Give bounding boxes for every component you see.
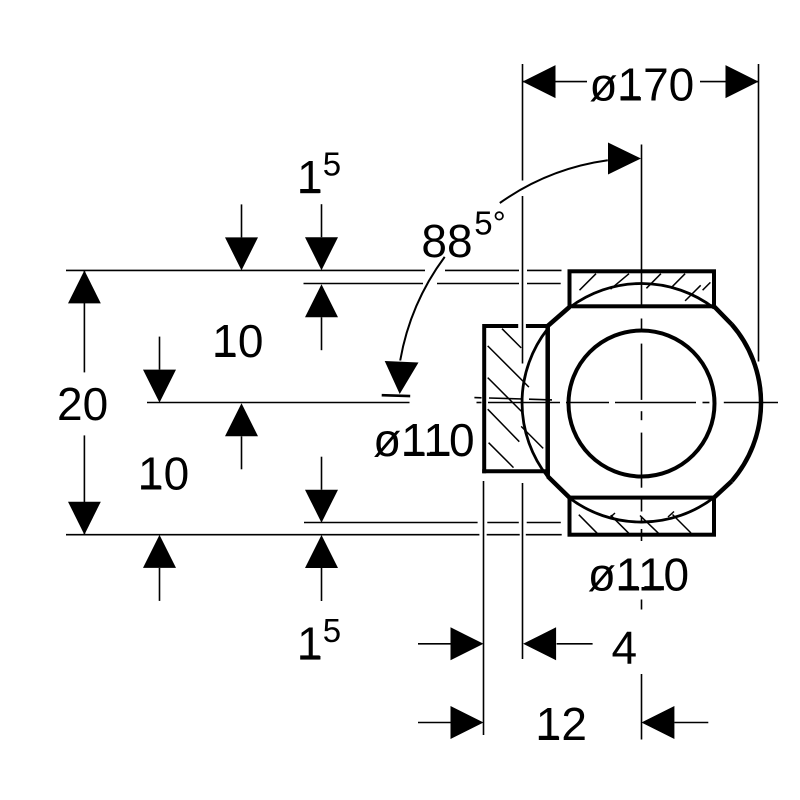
svg-text:ø170: ø170 — [589, 58, 694, 110]
svg-text:5°: 5° — [474, 205, 506, 242]
sphere silhouette arc in bottom socket — [570, 498, 715, 523]
arrowhead right of dim ø170 — [726, 65, 759, 98]
ball body chamfer top-right — [714, 306, 732, 324]
svg-text:10: 10 — [212, 315, 263, 367]
lower reference line L5 (broken by extension lines) — [66, 534, 479, 536]
hatching of top socket section — [580, 274, 597, 291]
arrowhead down of dim 20 — [68, 502, 101, 535]
ball body chamfer bottom-left — [548, 476, 570, 497]
arrowhead up of dim 20 — [68, 270, 101, 303]
leader arc upper segment of angle 88.5 — [500, 160, 608, 203]
upper sloped-pipe line L2 (broken by leader arc and extension line) — [304, 283, 424, 285]
dimension line right of dim 12 — [674, 722, 708, 724]
extension line at x=484 (socket face, for dims 4 and 12) — [483, 481, 485, 735]
inner bore circle — [569, 331, 715, 477]
arrowhead up of dim 10 upper (at L3) — [225, 403, 258, 436]
svg-text:4: 4 — [612, 621, 638, 673]
svg-text:ø110: ø110 — [373, 414, 474, 466]
vertical centreline of vertical pipe axis (dash-dot) — [641, 145, 643, 307]
sloped branch centreline (dash-dot, 1.5 degree fall) — [474, 397, 481, 399]
arrowhead down of dim 10 upper (at L1) — [225, 237, 258, 270]
sphere silhouette arc in top socket — [570, 284, 715, 309]
arrowhead left-pointing of dim 12 — [641, 706, 674, 739]
svg-text:5: 5 — [323, 145, 341, 182]
arrowhead up of dim 10 lower (at L5) — [143, 535, 176, 568]
extension line left of dim ø170 (sphere left tangent x=522.5), upper part broken by angle leader — [522, 64, 524, 181]
ball body chamfer top-left — [548, 307, 570, 326]
bottom socket rectangle (hatched section) — [570, 498, 715, 535]
dimension line left of dim 4 — [418, 643, 451, 645]
svg-text:1: 1 — [297, 618, 323, 670]
extension line right of dim ø170 (sphere right tangent x=759) — [758, 64, 760, 362]
ball body chamfer bottom-right — [714, 481, 732, 497]
svg-text:1: 1 — [297, 151, 323, 203]
left socket rectangle (hatched section), top edge broken by extension line — [484, 324, 518, 328]
svg-text:5: 5 — [323, 612, 341, 649]
arrowhead left-pointing of dim 4 — [523, 627, 556, 660]
arrowhead right-pointing of dim 4 — [451, 627, 484, 660]
ball body outline left edge — [545, 326, 550, 476]
arrowhead up of dim 1-5 top (at L2) — [305, 284, 338, 317]
upper reference line L1 (top of branch, broken by leader arc and extension line) — [66, 269, 425, 271]
dimension line of dim 20 — [83, 270, 85, 372]
dimension line ø170 — [523, 81, 588, 83]
ball body right arc (sphere silhouette) — [732, 324, 761, 481]
branch axis tick under leader arrowhead — [382, 394, 411, 397]
dimension line left of dim 12 — [418, 722, 451, 724]
arrowhead right-pointing of dim 12 — [451, 706, 484, 739]
leader arrowhead at vertical axis (angle 88.5) — [608, 143, 641, 175]
dimension line right of dim 4 — [557, 643, 593, 645]
sphere silhouette arc in left socket — [522, 329, 548, 477]
hatching of bottom socket section — [579, 515, 597, 534]
svg-text:10: 10 — [138, 448, 189, 500]
svg-text:12: 12 — [536, 698, 587, 750]
middle reference line L3 (branch axis level) — [147, 402, 410, 404]
hatching of left socket section — [502, 329, 521, 348]
lower sloped-pipe line L4 (broken by extension lines) — [304, 522, 478, 524]
leader arrowhead at branch axis (angle 88.5) — [385, 361, 419, 394]
arrowhead up of dim 1-5 bottom (at L5) — [305, 535, 338, 568]
leader arc lower segment of angle 88.5 — [400, 257, 445, 361]
arrowhead down of dim 1-5 top (at L1) — [305, 237, 338, 270]
extension line at x=523 (sphere tangent, for dim 4) — [522, 483, 524, 659]
arrowhead down of dim 1-5 bottom (at L4) — [305, 490, 338, 523]
svg-text:20: 20 — [57, 378, 108, 430]
svg-text:88: 88 — [421, 215, 472, 267]
horizontal centreline of ball (dash-dot) — [477, 402, 482, 404]
top socket rectangle (hatched section) — [570, 271, 715, 306]
arrowhead down of dim 10 lower (at L3) — [143, 370, 176, 403]
arrowhead left of dim ø170 — [523, 65, 556, 98]
svg-text:ø110: ø110 — [588, 548, 689, 600]
